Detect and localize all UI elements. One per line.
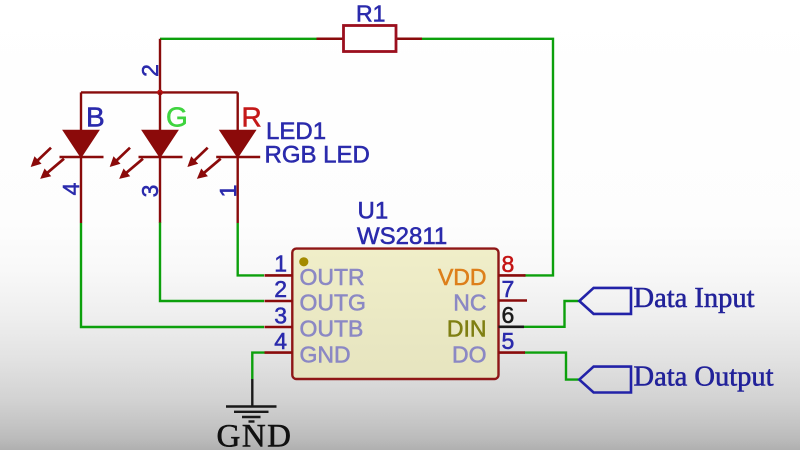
LED G element of LED1 (139, 92, 183, 223)
LED B emission arrows (32, 148, 65, 179)
pin 1 marker dot (299, 257, 308, 266)
LED G emission arrows (111, 148, 144, 179)
pin 2 lead (265, 300, 293, 303)
wire from R1 right lead down to pin 8 VDD (422, 39, 553, 276)
pin 5 lead (499, 351, 526, 354)
wire pin 4 GND to ground (252, 353, 264, 380)
wire LED B cathode to pin 3 OUTB (81, 223, 264, 327)
svg-text:DO: DO (452, 342, 487, 368)
svg-text:R1: R1 (356, 1, 385, 27)
wire pin 6 DIN to Data Input (524, 301, 579, 327)
svg-text:2: 2 (137, 64, 163, 77)
svg-text:NC: NC (453, 290, 486, 316)
wire LED R cathode to pin 1 OUTR (238, 223, 264, 275)
svg-text:DIN: DIN (447, 316, 487, 342)
svg-text:7: 7 (502, 276, 515, 302)
svg-text:1: 1 (274, 251, 287, 277)
pin 4 lead (265, 351, 293, 354)
svg-text:B: B (86, 102, 105, 133)
LED R emission arrows (188, 148, 221, 179)
svg-text:R: R (242, 102, 262, 133)
svg-text:OUTG: OUTG (300, 290, 366, 316)
wire LED G cathode to pin 2 OUTG (160, 223, 264, 302)
IC U1 WS2811 body (292, 249, 498, 379)
svg-text:1: 1 (215, 185, 241, 198)
svg-text:3: 3 (137, 185, 163, 198)
svg-text:5: 5 (502, 328, 515, 354)
pin 6 lead (499, 325, 525, 328)
svg-text:RGB LED: RGB LED (265, 142, 370, 169)
svg-text:3: 3 (274, 302, 287, 328)
LED B element of LED1 (60, 92, 104, 223)
svg-text:2: 2 (274, 276, 287, 302)
wire LED1 anode bus (81, 91, 238, 93)
svg-text:WS2811: WS2811 (357, 223, 447, 250)
svg-text:GND: GND (217, 419, 293, 450)
svg-text:G: G (166, 102, 188, 133)
pin 8 lead (499, 274, 526, 277)
pin 1 lead (265, 274, 293, 277)
svg-text:OUTR: OUTR (300, 264, 365, 290)
wire LED1 common anode drop (159, 39, 161, 93)
wire from node 2 to R1 left lead (160, 38, 317, 40)
svg-text:U1: U1 (358, 198, 389, 225)
wire pin 5 DO to Data Output (524, 353, 579, 380)
svg-text:6: 6 (502, 302, 515, 328)
svg-text:OUTB: OUTB (300, 316, 364, 342)
svg-text:4: 4 (58, 182, 84, 195)
ground (226, 379, 277, 422)
node Data Output connector symbol (579, 367, 631, 393)
svg-text:VDD: VDD (438, 264, 487, 290)
svg-text:Data Input: Data Input (634, 283, 755, 314)
resistor R1 (317, 26, 423, 52)
svg-text:4: 4 (274, 328, 287, 354)
svg-text:GND: GND (300, 342, 351, 368)
pin 3 lead (265, 326, 293, 329)
node Data Input connector symbol (579, 288, 631, 314)
svg-text:Data Output: Data Output (634, 362, 774, 393)
junction at anode bus (157, 90, 163, 96)
LED R element of LED1 (216, 92, 260, 223)
svg-text:8: 8 (502, 251, 515, 277)
pin 7 lead (499, 299, 528, 302)
